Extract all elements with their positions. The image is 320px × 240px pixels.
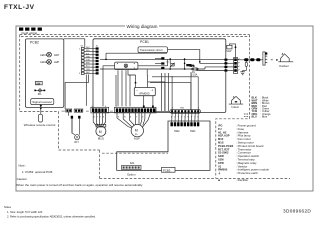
svg-text:⏚: ⏚ <box>218 171 221 175</box>
wiring diagram title <box>125 23 159 30</box>
svg-text:PCB2: PCB2 <box>30 41 39 45</box>
svg-text:+: + <box>151 88 153 92</box>
IPM output pins <box>143 106 154 109</box>
svg-text:1. Size: length 70 ft width 12: 1. Size: length 70 ft width 120 <box>7 210 43 214</box>
PCB3 label box <box>162 167 176 172</box>
junction dots <box>105 58 200 69</box>
svg-text:0: 0 <box>198 108 199 110</box>
svg-text:Notes: Notes <box>4 205 12 209</box>
staircase wires to S90 <box>150 77 198 110</box>
thermistor R1T pins <box>71 116 81 119</box>
document number <box>283 209 311 214</box>
svg-text:FU: FU <box>218 127 222 131</box>
svg-text:Wireless remote control: Wireless remote control <box>24 123 56 127</box>
svg-text:H1, H2: H1, H2 <box>218 130 227 134</box>
svg-text:: Rectifier: : Rectifier <box>236 178 248 182</box>
svg-text:YLW: YLW <box>86 60 90 62</box>
svg-text:WHT: WHT <box>86 72 90 74</box>
wire IPM to S90 strip <box>148 82 165 111</box>
svg-text:V1: V1 <box>218 164 222 168</box>
S21 connector <box>122 161 142 169</box>
svg-text:M: M <box>135 129 138 133</box>
field wire tags to outdoor <box>238 58 263 61</box>
svg-text:3~: 3~ <box>135 132 138 136</box>
svg-text:S21: S21 <box>130 161 135 165</box>
svg-text:H1P: H1P <box>54 53 59 57</box>
svg-text:Signal receiver: Signal receiver <box>32 100 52 104</box>
wireless remote control <box>24 114 56 127</box>
dashed boundary top line B <box>21 36 250 38</box>
svg-text:S901: S901 <box>190 130 196 133</box>
svg-text:SW: SW <box>36 82 41 85</box>
inter-PCB connector white column <box>81 47 84 74</box>
fuse capsule on earth wire <box>245 61 247 71</box>
svg-text:S1W: S1W <box>218 154 224 158</box>
svg-text:6: 6 <box>105 106 106 108</box>
connector strip S8 (swing) <box>86 106 109 113</box>
thermistor R1T wires <box>72 119 79 135</box>
svg-text:H1P, H2P: H1P, H2P <box>218 134 230 138</box>
svg-text:M1S: M1S <box>218 141 224 145</box>
wires strip S90 to PCB3 <box>172 113 199 122</box>
svg-text:WHT: WHT <box>86 47 90 49</box>
svg-text:R1T: R1T <box>75 142 80 144</box>
terminal X2M outdoor side <box>263 52 267 65</box>
svg-text:10: 10 <box>143 106 145 108</box>
terminal strip X1M <box>234 58 240 74</box>
indoor house icon <box>229 96 243 109</box>
svg-text:1: 1 <box>92 106 93 108</box>
svg-text:: Blue: : Blue <box>261 115 268 119</box>
wire color labels under strips <box>94 117 144 119</box>
svg-text:PCB1: PCB1 <box>140 40 149 44</box>
title FTXL-JV <box>4 4 35 11</box>
svg-text:BLU: BLU <box>252 115 257 119</box>
dashed boundary left edge <box>19 35 21 112</box>
transmission circuit box <box>138 47 168 53</box>
PCB3 L-shape outline <box>117 121 210 170</box>
svg-text:PCB3: PCB3 <box>163 168 171 172</box>
svg-text:S32: S32 <box>62 111 65 113</box>
IPM000 module <box>134 82 155 96</box>
ground symbol <box>240 71 246 75</box>
svg-text:KPR: KPR <box>218 161 224 165</box>
PCB1 edge pins <box>224 59 227 72</box>
pin labels above PCB3 <box>171 117 199 119</box>
svg-text:R1T, R2T: R1T, R2T <box>218 147 230 151</box>
svg-text:1: 1 <box>172 108 173 110</box>
fan motor M1F wires <box>117 113 151 128</box>
connector wire color labels <box>79 45 99 75</box>
connector S32 2-pin <box>62 109 73 134</box>
wire PCB2 top to connector <box>64 39 85 48</box>
svg-text:3D089662D: 3D089662D <box>283 209 311 214</box>
3-pin connector S3 <box>155 57 164 69</box>
svg-text:Outdoor: Outdoor <box>279 64 289 68</box>
svg-text:M: M <box>99 130 102 134</box>
svg-text:LED1: LED1 <box>40 53 47 57</box>
thermistor R1T <box>75 135 80 144</box>
svg-text:S902: S902 <box>174 130 180 133</box>
wires pins to terminal <box>227 60 233 71</box>
PCB2 box <box>25 39 63 108</box>
signal receiver box <box>31 99 54 105</box>
svg-text:Option: Option <box>127 172 136 176</box>
connector S31 2-pin <box>74 109 83 112</box>
parts legend <box>218 124 269 183</box>
PCB3 top pin row <box>171 122 200 126</box>
fan motor M1F <box>131 124 143 140</box>
svg-text:Wiring diagram: Wiring diagram <box>127 24 158 29</box>
connector strip S90 <box>155 107 201 113</box>
PCB1 box <box>93 39 226 113</box>
dashed notch under signal receiver <box>20 112 100 151</box>
svg-text:X1M: X1M <box>218 158 224 162</box>
svg-text:IPM000: IPM000 <box>140 91 150 95</box>
S902 S901 labels <box>174 130 196 133</box>
svg-text:M1F: M1F <box>218 137 224 141</box>
note text inside box <box>16 164 143 188</box>
connector strip S9 (fan) <box>110 106 156 113</box>
wires connector down-left <box>65 75 88 110</box>
dash-dot marks for org/blu <box>244 114 250 117</box>
svg-text:Indoor: Indoor <box>232 105 240 109</box>
svg-text:S1W: S1W <box>226 50 232 53</box>
svg-text:ORG: ORG <box>86 69 91 71</box>
field wiring label <box>22 31 38 35</box>
svg-text:/FG: /FG <box>218 124 222 128</box>
svg-text:H2P: H2P <box>54 60 59 64</box>
svg-text:Transmission circuit: Transmission circuit <box>140 48 163 52</box>
IR receiver symbol <box>34 89 45 97</box>
varistor V1 <box>166 62 175 67</box>
swing motor M1S wires <box>93 113 105 126</box>
relay KPR box <box>115 62 138 69</box>
outdoor house icon <box>278 53 293 68</box>
switch SW box <box>35 81 42 85</box>
svg-text:: Protective earth: : Protective earth <box>236 171 258 175</box>
connector row wires <box>84 49 96 74</box>
field wiring marker squares <box>19 28 42 31</box>
dashed boundary top line A <box>20 34 250 36</box>
dash-dot link to outdoor <box>271 59 278 61</box>
wire color legend <box>252 96 272 119</box>
inter-PCB connector black column <box>96 47 99 74</box>
svg-text:Note :: Note : <box>18 164 26 168</box>
option label <box>127 172 136 176</box>
svg-text:1. PCB3: optional PCB: 1. PCB3: optional PCB <box>22 170 52 174</box>
outer border frame <box>16 26 313 191</box>
dashed option box <box>100 150 216 178</box>
svg-text:When the main power is turned: When the main power is turned off and th… <box>16 183 143 187</box>
S1W operation switch <box>226 44 236 58</box>
svg-text:M1F: M1F <box>134 137 140 141</box>
svg-text:−: − <box>136 88 138 92</box>
swing motor M1S <box>96 124 106 140</box>
svg-text:3.15A: 3.15A <box>191 73 198 76</box>
dashed legend underline <box>216 177 290 179</box>
svg-text:PCB1-PCB3: PCB1-PCB3 <box>218 144 234 148</box>
svg-text:Caution: Caution <box>17 177 28 181</box>
bottom notes <box>4 205 96 219</box>
svg-text:FTXL-JV: FTXL-JV <box>4 4 35 11</box>
LED H1P <box>40 52 59 57</box>
svg-text:M1S: M1S <box>98 137 104 141</box>
svg-text:1: 1 <box>116 106 117 108</box>
coil component <box>186 64 194 67</box>
wire receiver to remote <box>40 104 42 114</box>
fuse FU 3.15A <box>191 68 198 76</box>
wires down to S90 strip <box>162 72 192 111</box>
PCB1 internal bus wires <box>100 50 224 107</box>
svg-text:IPM000: IPM000 <box>218 168 228 172</box>
wires IPM down <box>116 70 153 106</box>
dashed boundary right edge <box>216 35 250 179</box>
svg-text:2. Refer to purchasing specifi: 2. Refer to purchasing specification AE0… <box>7 215 96 219</box>
svg-text:IR1: IR1 <box>38 93 42 96</box>
LED H2P <box>40 59 59 64</box>
svg-text:S1-S902: S1-S902 <box>218 151 229 155</box>
svg-text:LED2: LED2 <box>40 60 47 64</box>
